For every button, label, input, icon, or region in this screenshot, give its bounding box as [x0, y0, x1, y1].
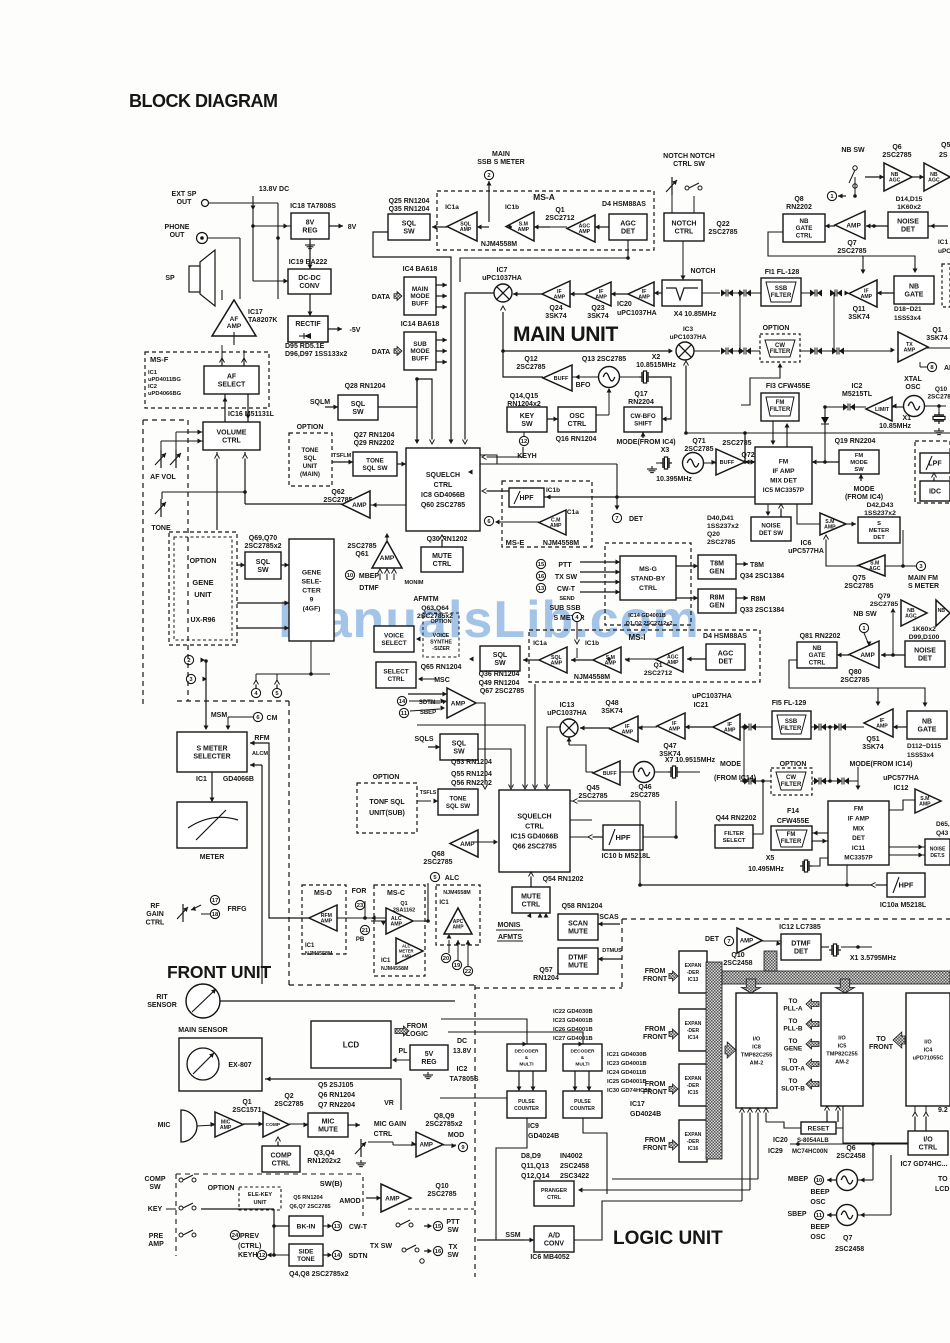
- svg-text:13: 13: [334, 1224, 341, 1230]
- svg-text:AMOD: AMOD: [339, 1198, 360, 1205]
- svg-text:FILTERSELECT: FILTERSELECT: [723, 831, 746, 844]
- svg-text:CW-T: CW-T: [557, 586, 576, 593]
- svg-text:SCANMUTE: SCANMUTE: [568, 920, 588, 935]
- svg-text:IC18 TA7808S: IC18 TA7808S: [290, 203, 336, 210]
- svg-text:FILTER: FILTER: [781, 839, 802, 845]
- svg-text:10: 10: [347, 573, 353, 579]
- svg-text:MS-C: MS-C: [387, 890, 405, 897]
- svg-text:FROMFRONT: FROMFRONT: [643, 968, 668, 983]
- svg-text:2SC2458: 2SC2458: [835, 1246, 864, 1253]
- svg-text:IC20: IC20: [617, 301, 632, 308]
- svg-text:1K60x2D99,D100: 1K60x2D99,D100: [909, 626, 940, 641]
- svg-text:GD4024B: GD4024B: [630, 1111, 661, 1118]
- svg-text:NOTCHCTRL: NOTCHCTRL: [672, 220, 697, 235]
- svg-text:LCD: LCD: [343, 1040, 360, 1049]
- svg-text:PB: PB: [356, 937, 365, 943]
- svg-text:GENESELE-CTER9(4GF): GENESELE-CTER9(4GF): [301, 569, 321, 612]
- svg-text:MOD: MOD: [448, 1132, 464, 1139]
- svg-text:Q5 2SJ105: Q5 2SJ105: [318, 1082, 354, 1089]
- svg-text:7: 7: [727, 939, 730, 945]
- svg-text:Q53 RN1204: Q53 RN1204: [451, 759, 492, 766]
- svg-text:IC1: IC1: [305, 943, 315, 949]
- svg-text:AMP: AMP: [380, 555, 395, 562]
- svg-text:R8M: R8M: [751, 596, 766, 603]
- svg-text:Q5: Q5: [941, 142, 950, 149]
- svg-text:XTALOSC: XTALOSC: [904, 376, 922, 391]
- svg-text:11: 11: [401, 711, 408, 717]
- svg-text:MAIN UNIT: MAIN UNIT: [513, 323, 618, 346]
- svg-text:D65,D...: D65,D...: [936, 821, 950, 828]
- svg-text:MS-I: MS-I: [629, 633, 646, 642]
- svg-text:19: 19: [454, 963, 461, 969]
- svg-text:IC23 GD4001B: IC23 GD4001B: [553, 1018, 593, 1024]
- svg-text:S.MAMP: S.MAMP: [605, 655, 617, 667]
- svg-text:MUTECTRL: MUTECTRL: [521, 893, 541, 908]
- svg-text:AMP: AMP: [860, 652, 875, 659]
- svg-text:IC22 GD4030B: IC22 GD4030B: [553, 1009, 593, 1015]
- svg-text:DATA: DATA: [372, 349, 390, 356]
- svg-text:DC: DC: [457, 1038, 467, 1045]
- svg-text:CW: CW: [786, 775, 796, 781]
- svg-text:CFW455E: CFW455E: [777, 818, 810, 825]
- svg-text:MODE: MODE: [720, 761, 741, 768]
- svg-text:IC24 GD4011B: IC24 GD4011B: [607, 1070, 646, 1076]
- svg-text:AMP: AMP: [740, 939, 753, 945]
- svg-text:TSFLS: TSFLS: [420, 790, 437, 796]
- svg-text:13.8V DC: 13.8V DC: [259, 186, 289, 193]
- svg-text:SQLAMP: SQLAMP: [460, 221, 472, 233]
- svg-text:LOGIC UNIT: LOGIC UNIT: [613, 1228, 723, 1249]
- svg-text:PREV: PREV: [240, 1233, 259, 1240]
- svg-text:FROMFRONT: FROMFRONT: [643, 1026, 668, 1041]
- svg-text:8V: 8V: [348, 224, 357, 231]
- svg-text:APCAMP: APCAMP: [452, 919, 464, 931]
- svg-text:UNIT: UNIT: [253, 1200, 267, 1206]
- svg-text:S METERSELECTER: S METERSELECTER: [193, 745, 230, 760]
- svg-text:R8MGEN: R8MGEN: [709, 594, 724, 609]
- svg-text:uPC1037HA: uPC1037HA: [692, 693, 732, 700]
- svg-text:MAINMODEBUFF: MAINMODEBUFF: [410, 286, 430, 308]
- svg-text:NJM4558M: NJM4558M: [381, 966, 409, 972]
- svg-text:SQLAMP: SQLAMP: [551, 655, 563, 667]
- svg-text:VOICESELECT: VOICESELECT: [381, 633, 406, 647]
- svg-text:AGCDET: AGCDET: [718, 650, 734, 665]
- svg-text:OPTION: OPTION: [208, 1185, 235, 1192]
- svg-text:IC25 GD4001B: IC25 GD4001B: [607, 1079, 647, 1085]
- svg-text:IC9: IC9: [528, 1123, 539, 1130]
- svg-text:FM: FM: [787, 832, 796, 838]
- svg-text:MONIS: MONIS: [498, 922, 521, 929]
- svg-text:DATA: DATA: [372, 294, 390, 301]
- svg-text:Q13 2SC2785: Q13 2SC2785: [582, 356, 626, 363]
- svg-text:TSFLM: TSFLM: [333, 453, 352, 459]
- svg-text:BUFF: BUFF: [603, 771, 617, 777]
- svg-text:SQLS: SQLS: [414, 736, 433, 743]
- svg-text:MBEP: MBEP: [788, 1176, 809, 1183]
- svg-text:AMP: AMP: [352, 502, 367, 509]
- svg-text:2SC2785: 2SC2785: [722, 440, 751, 447]
- svg-text:IDC: IDC: [929, 488, 941, 495]
- svg-text:MUTECTRL: MUTECTRL: [432, 553, 452, 568]
- svg-text:AL: AL: [944, 365, 950, 372]
- svg-text:FROMLOGIC: FROMLOGIC: [406, 1023, 428, 1038]
- svg-text:EX-807: EX-807: [228, 1062, 251, 1069]
- svg-text:Q6 RN1204: Q6 RN1204: [318, 1092, 355, 1099]
- svg-text:HPF: HPF: [616, 833, 631, 842]
- svg-text:NB SW: NB SW: [853, 611, 877, 618]
- svg-text:VR: VR: [384, 1100, 394, 1107]
- svg-text:21: 21: [362, 928, 369, 934]
- svg-text:uPC577HA: uPC577HA: [883, 775, 919, 782]
- svg-text:AGCAMP: AGCAMP: [579, 223, 591, 235]
- svg-text:SSB: SSB: [785, 719, 798, 725]
- svg-text:IC7 GD74HC...: IC7 GD74HC...: [900, 1161, 947, 1168]
- svg-text:KEY: KEY: [148, 1206, 163, 1213]
- svg-text:BEEP: BEEP: [810, 1189, 829, 1196]
- svg-text:IC1: IC1: [381, 958, 391, 964]
- svg-text:D112~D115: D112~D115: [907, 743, 942, 750]
- svg-text:MS-D: MS-D: [314, 890, 332, 897]
- svg-text:DC-DCCONV: DC-DCCONV: [298, 275, 321, 290]
- svg-text:BEEP: BEEP: [810, 1224, 829, 1231]
- svg-text:GD4024B: GD4024B: [528, 1133, 559, 1140]
- svg-text:AFMTS: AFMTS: [498, 934, 522, 941]
- svg-text:DET: DET: [629, 516, 644, 523]
- svg-text:TX SW: TX SW: [555, 574, 578, 581]
- svg-text:LIMIT: LIMIT: [875, 407, 890, 413]
- svg-text:MSM: MSM: [211, 712, 228, 719]
- svg-text:LPF: LPF: [928, 460, 942, 467]
- svg-text:IC10a M5218L: IC10a M5218L: [880, 902, 927, 909]
- svg-text:OSCCTRL: OSCCTRL: [568, 413, 587, 428]
- svg-text:NOISEDET SW: NOISEDET SW: [759, 523, 783, 537]
- svg-text:DTMF: DTMF: [359, 585, 379, 592]
- svg-text:Q30 RN1202: Q30 RN1202: [427, 536, 468, 543]
- svg-text:AMP: AMP: [420, 1143, 433, 1149]
- svg-text:TXSW: TXSW: [447, 1244, 459, 1259]
- svg-text:PL: PL: [399, 1048, 409, 1055]
- svg-text:18: 18: [212, 912, 219, 918]
- svg-text:D8,D9: D8,D9: [521, 1153, 541, 1160]
- svg-text:ALC: ALC: [445, 875, 459, 882]
- svg-text:NB: NB: [938, 608, 946, 614]
- svg-text:PTT: PTT: [558, 562, 572, 569]
- svg-text:KEYSW: KEYSW: [520, 413, 535, 428]
- svg-text:HPF: HPF: [520, 495, 535, 502]
- svg-text:IC14 GD4001B: IC14 GD4001B: [628, 613, 666, 619]
- svg-text:SEND: SEND: [559, 596, 574, 602]
- svg-text:PREAMP: PREAMP: [148, 1233, 164, 1248]
- svg-text:AFMTM: AFMTM: [413, 596, 438, 603]
- svg-text:Q5 RN1204: Q5 RN1204: [293, 1195, 323, 1201]
- svg-text:FROMFRONT: FROMFRONT: [643, 1137, 668, 1152]
- svg-text:IC16 M51131L: IC16 M51131L: [228, 411, 275, 418]
- svg-text:Q1,Q2 2SC2712x2: Q1,Q2 2SC2712x2: [626, 621, 673, 627]
- svg-text:DTMFMUTE: DTMFMUTE: [568, 954, 588, 969]
- svg-text:Q63,Q642SC2785x2: Q63,Q642SC2785x2: [417, 605, 453, 620]
- svg-text:11: 11: [816, 1213, 823, 1219]
- svg-text:(FROM IC14): (FROM IC14): [714, 775, 756, 782]
- svg-text:IC21 GD4030B: IC21 GD4030B: [607, 1052, 647, 1058]
- svg-text:OPTION: OPTION: [763, 325, 790, 332]
- svg-text:FRFG: FRFG: [227, 906, 247, 913]
- svg-text:TO: TO: [938, 1176, 948, 1183]
- svg-text:AMP: AMP: [846, 222, 861, 229]
- svg-text:NJM4558M: NJM4558M: [305, 951, 333, 957]
- svg-text:NOTCH: NOTCH: [691, 268, 716, 275]
- svg-text:SCAS: SCAS: [599, 914, 619, 921]
- svg-text:PTTSW: PTTSW: [446, 1219, 460, 1234]
- svg-text:IC2: IC2: [457, 1066, 468, 1073]
- svg-text:NOISEDET.S: NOISEDET.S: [930, 847, 946, 860]
- svg-text:IC27 GD4001B: IC27 GD4001B: [553, 1036, 593, 1042]
- svg-text:-5V: -5V: [350, 327, 361, 334]
- svg-text:SSB: SSB: [775, 286, 788, 292]
- svg-text:Q44 RN2202: Q44 RN2202: [716, 815, 757, 822]
- svg-text:SBEP: SBEP: [787, 1211, 806, 1218]
- svg-text:2SC2458: 2SC2458: [560, 1163, 589, 1170]
- svg-text:MICAMP: MICAMP: [220, 1119, 232, 1131]
- svg-text:S.MAMP: S.MAMP: [518, 221, 530, 233]
- svg-text:OPTION: OPTION: [780, 761, 807, 768]
- svg-text:BK-IN: BK-IN: [297, 1223, 316, 1230]
- svg-text:Q43 2...: Q43 2...: [936, 830, 950, 837]
- svg-text:2SC3422: 2SC3422: [560, 1173, 589, 1180]
- svg-text:17: 17: [212, 898, 218, 904]
- svg-text:Q28 RN1204: Q28 RN1204: [345, 383, 386, 390]
- svg-text:uPC: uPC: [938, 248, 950, 255]
- svg-text:SSM: SSM: [505, 1232, 520, 1239]
- svg-text:F14: F14: [787, 808, 799, 815]
- svg-text:MODE(FROM IC14): MODE(FROM IC14): [850, 761, 913, 768]
- svg-text:NB SW: NB SW: [841, 147, 865, 154]
- svg-text:Q81 RN2202: Q81 RN2202: [800, 633, 841, 640]
- svg-text:BFO: BFO: [576, 382, 591, 389]
- svg-text:KEYH: KEYH: [238, 1252, 257, 1259]
- svg-text:FILTER: FILTER: [770, 349, 791, 355]
- svg-text:GD4066B: GD4066B: [223, 776, 254, 783]
- svg-text:IC29: IC29: [768, 1148, 783, 1155]
- svg-text:RECTIF: RECTIF: [295, 321, 321, 328]
- svg-text:RFMAMP: RFMAMP: [321, 913, 333, 925]
- svg-text:COMPCTRL: COMPCTRL: [271, 1152, 292, 1167]
- svg-text:FILTER: FILTER: [781, 726, 802, 732]
- svg-text:VOICESYNTHE-SIZER: VOICESYNTHE-SIZER: [430, 633, 452, 652]
- svg-text:Q25 RN1204Q35 RN1204: Q25 RN1204Q35 RN1204: [389, 198, 430, 213]
- svg-text:NJM4558M: NJM4558M: [574, 674, 610, 681]
- svg-text:IC10 b M5218L: IC10 b M5218L: [602, 853, 651, 860]
- svg-text:METER: METER: [200, 854, 225, 861]
- svg-text:AF VOL: AF VOL: [150, 474, 176, 481]
- svg-text:CW-T: CW-T: [349, 1224, 368, 1231]
- svg-text:Q16 RN1204: Q16 RN1204: [556, 436, 597, 443]
- svg-text:FI3 CFW455E: FI3 CFW455E: [766, 383, 811, 390]
- svg-text:23: 23: [357, 903, 364, 909]
- svg-text:TX SW: TX SW: [370, 1243, 393, 1250]
- svg-text:IN4002: IN4002: [560, 1153, 583, 1160]
- svg-text:D4 HSM88AS: D4 HSM88AS: [602, 201, 646, 208]
- svg-text:X1 3.5795MHz: X1 3.5795MHz: [850, 955, 897, 962]
- svg-text:9.2: 9.2: [938, 1107, 948, 1114]
- svg-text:DTMUS: DTMUS: [602, 948, 622, 954]
- svg-text:AGCAMP: AGCAMP: [667, 654, 679, 666]
- svg-text:14: 14: [334, 1253, 341, 1259]
- svg-text:IC1b: IC1b: [546, 487, 560, 494]
- svg-text:16: 16: [538, 574, 545, 580]
- svg-text:16: 16: [435, 1249, 442, 1255]
- svg-text:MIC GAIN: MIC GAIN: [374, 1121, 406, 1128]
- svg-text:IC1: IC1: [439, 900, 449, 906]
- svg-text:IC14 BA618: IC14 BA618: [401, 321, 440, 328]
- svg-text:Q55 RN1204: Q55 RN1204: [451, 771, 492, 778]
- svg-text:Q19 RN2204: Q19 RN2204: [835, 438, 876, 445]
- svg-text:NJM4558M: NJM4558M: [443, 890, 471, 896]
- svg-text:MODE(FROM IC4): MODE(FROM IC4): [616, 439, 675, 446]
- svg-text:BLOCK DIAGRAM: BLOCK DIAGRAM: [129, 91, 278, 111]
- svg-text:(CTRL): (CTRL): [238, 1243, 261, 1250]
- svg-text:22: 22: [465, 969, 471, 975]
- svg-text:7: 7: [615, 516, 618, 522]
- svg-text:12: 12: [259, 1253, 265, 1259]
- svg-text:X4 10.85MHz: X4 10.85MHz: [674, 311, 717, 318]
- svg-text:NJM4558M: NJM4558M: [481, 241, 517, 248]
- svg-text:IC23 GD4001B: IC23 GD4001B: [607, 1061, 647, 1067]
- svg-text:HPF: HPF: [899, 881, 914, 890]
- svg-text:FI5 FL-129: FI5 FL-129: [772, 700, 807, 707]
- svg-text:S.MAMP: S.MAMP: [919, 796, 931, 808]
- svg-text:2S: 2S: [939, 152, 948, 159]
- svg-text:NJM4558M: NJM4558M: [543, 540, 579, 547]
- svg-text:Q11,Q13: Q11,Q13: [521, 1163, 549, 1170]
- svg-text:LCD: LCD: [935, 1186, 949, 1193]
- svg-text:IC12: IC12: [894, 785, 909, 792]
- svg-text:AMP: AMP: [451, 700, 466, 707]
- svg-text:Q14,Q15RN1204x2: Q14,Q15RN1204x2: [507, 393, 541, 408]
- svg-text:AGCDET: AGCDET: [620, 220, 636, 235]
- svg-text:IC1: IC1: [196, 776, 207, 783]
- svg-text:SQLM: SQLM: [310, 399, 330, 406]
- svg-text:MAIN SENSOR: MAIN SENSOR: [178, 1027, 227, 1034]
- svg-text:T8M: T8M: [750, 562, 764, 569]
- svg-text:Q67 2SC2785: Q67 2SC2785: [480, 688, 524, 695]
- svg-text:Q69,Q702SC2785x2: Q69,Q702SC2785x2: [245, 535, 282, 550]
- svg-text:BUFF: BUFF: [554, 376, 569, 382]
- svg-text:D42,D431SS237x2: D42,D431SS237x2: [864, 502, 896, 517]
- svg-text:20: 20: [443, 956, 449, 962]
- svg-text:10.495MHz: 10.495MHz: [748, 866, 784, 873]
- svg-text:IC21: IC21: [694, 702, 709, 709]
- svg-text:IC12 LC7385: IC12 LC7385: [779, 924, 821, 931]
- svg-text:FRONT UNIT: FRONT UNIT: [167, 962, 271, 982]
- svg-text:S-8054ALB: S-8054ALB: [797, 1138, 829, 1144]
- svg-text:Q27 RN1204Q29 RN2202: Q27 RN1204Q29 RN2202: [354, 432, 395, 447]
- svg-text:SP: SP: [165, 275, 175, 282]
- svg-text:TONESQLUNIT(MAIN): TONESQLUNIT(MAIN): [300, 447, 320, 478]
- svg-text:IC1b: IC1b: [585, 640, 599, 647]
- svg-text:Q7: Q7: [843, 1235, 852, 1242]
- svg-text:SIDETONE: SIDETONE: [297, 1249, 315, 1263]
- svg-text:TONE: TONE: [151, 525, 171, 532]
- svg-text:IC1a: IC1a: [533, 640, 547, 647]
- svg-text:OPTION: OPTION: [373, 774, 400, 781]
- svg-text:FILTER: FILTER: [771, 293, 792, 299]
- svg-text:CTRL: CTRL: [374, 1131, 393, 1138]
- svg-text:CM: CM: [267, 715, 278, 722]
- svg-text:FOR: FOR: [352, 888, 367, 895]
- svg-text:D14,D151K60x2: D14,D151K60x2: [896, 196, 923, 211]
- svg-text:S.MAMP: S.MAMP: [824, 519, 836, 531]
- svg-text:Q54 RN1202: Q54 RN1202: [543, 876, 584, 883]
- svg-text:SUB SSB: SUB SSB: [549, 605, 580, 612]
- svg-text:IC1b: IC1b: [505, 204, 519, 211]
- svg-text:MS-A: MS-A: [533, 192, 555, 202]
- svg-text:T8MGEN: T8MGEN: [709, 560, 724, 575]
- svg-text:15: 15: [435, 1224, 442, 1230]
- svg-text:MIC: MIC: [158, 1122, 171, 1129]
- svg-text:13.8V: 13.8V: [453, 1048, 472, 1055]
- svg-text:FILTER: FILTER: [770, 407, 791, 413]
- svg-text:MONIM: MONIM: [405, 580, 424, 586]
- svg-text:IC1: IC1: [938, 239, 949, 246]
- svg-text:MS-E: MS-E: [506, 538, 525, 547]
- svg-text:FI1 FL-128: FI1 FL-128: [765, 269, 800, 276]
- svg-text:Q65 RN1204: Q65 RN1204: [421, 664, 462, 671]
- svg-text:BUFF: BUFF: [720, 460, 735, 466]
- svg-text:X5: X5: [766, 855, 775, 862]
- svg-text:ALCM: ALCM: [252, 751, 268, 757]
- svg-text:12: 12: [521, 439, 527, 445]
- svg-text:DET: DET: [705, 936, 720, 943]
- svg-text:SBEP: SBEP: [420, 710, 436, 716]
- svg-text:MSC: MSC: [434, 677, 450, 684]
- svg-text:FM: FM: [776, 400, 785, 406]
- svg-text:15: 15: [538, 562, 545, 568]
- svg-text:X7 10.9515MHz: X7 10.9515MHz: [665, 757, 716, 764]
- svg-text:MS-F: MS-F: [150, 355, 169, 364]
- svg-text:FROMFRONT: FROMFRONT: [643, 1081, 668, 1096]
- svg-text:IC1a: IC1a: [445, 204, 459, 211]
- svg-text:IC20: IC20: [773, 1137, 788, 1144]
- svg-text:IC6 MB4052: IC6 MB4052: [530, 1254, 569, 1261]
- svg-text:IC4 BA618: IC4 BA618: [403, 266, 438, 273]
- svg-text:2: 2: [487, 173, 490, 179]
- svg-text:ELE-KEY: ELE-KEY: [248, 1192, 273, 1198]
- svg-text:D18~D21: D18~D21: [894, 306, 922, 313]
- svg-text:Q7 RN2204: Q7 RN2204: [318, 1102, 355, 1109]
- svg-text:OSC: OSC: [810, 1234, 825, 1241]
- svg-text:Q4,Q8 2SC2785x2: Q4,Q8 2SC2785x2: [289, 1271, 349, 1278]
- svg-text:D4 HSM88AS: D4 HSM88AS: [703, 633, 747, 640]
- svg-text:OPTION: OPTION: [297, 424, 324, 431]
- svg-text:14: 14: [399, 699, 406, 705]
- svg-text:uPC1037HA: uPC1037HA: [617, 310, 657, 317]
- svg-text:SW(B): SW(B): [320, 1179, 343, 1188]
- svg-text:Q72: Q72: [741, 452, 754, 459]
- svg-text:OSC: OSC: [810, 1199, 825, 1206]
- svg-text:FILTER: FILTER: [781, 782, 802, 788]
- svg-text:1SS53x4: 1SS53x4: [907, 752, 934, 759]
- svg-text:RESET: RESET: [808, 1125, 830, 1132]
- svg-text:MAIN FMS METER: MAIN FMS METER: [908, 575, 939, 590]
- svg-text:10.395MHz: 10.395MHz: [656, 476, 692, 483]
- svg-text:OPTION: OPTION: [190, 558, 217, 565]
- svg-text:S.MAGC: S.MAGC: [869, 560, 881, 572]
- svg-text:Q12,Q14: Q12,Q14: [521, 1173, 550, 1180]
- svg-text:24: 24: [232, 1233, 239, 1239]
- svg-text:Q33 2SC1384: Q33 2SC1384: [740, 607, 784, 614]
- svg-text:COMP: COMP: [266, 1122, 281, 1128]
- svg-text:Q58 RN1204: Q58 RN1204: [562, 903, 603, 910]
